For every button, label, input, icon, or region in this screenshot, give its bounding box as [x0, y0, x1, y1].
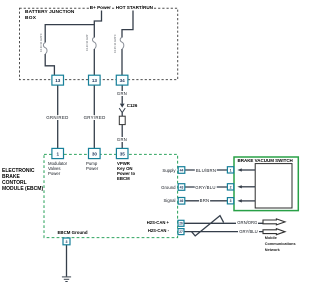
- svg-text:35: 35: [120, 151, 126, 156]
- svg-text:46: 46: [180, 199, 184, 203]
- svg-text:30: 30: [92, 151, 98, 156]
- svg-text:1: 1: [230, 168, 232, 172]
- svg-text:13: 13: [92, 78, 98, 83]
- svg-text:44: 44: [180, 168, 184, 172]
- svg-text:13: 13: [55, 78, 61, 83]
- svg-text:3: 3: [230, 199, 232, 203]
- svg-text:43: 43: [180, 185, 184, 189]
- svg-text:3: 3: [66, 240, 68, 244]
- svg-text:2: 2: [230, 185, 232, 189]
- svg-text:34: 34: [120, 78, 126, 83]
- svg-text:1: 1: [57, 151, 60, 156]
- svg-text:26: 26: [179, 222, 183, 226]
- svg-text:27: 27: [179, 230, 183, 234]
